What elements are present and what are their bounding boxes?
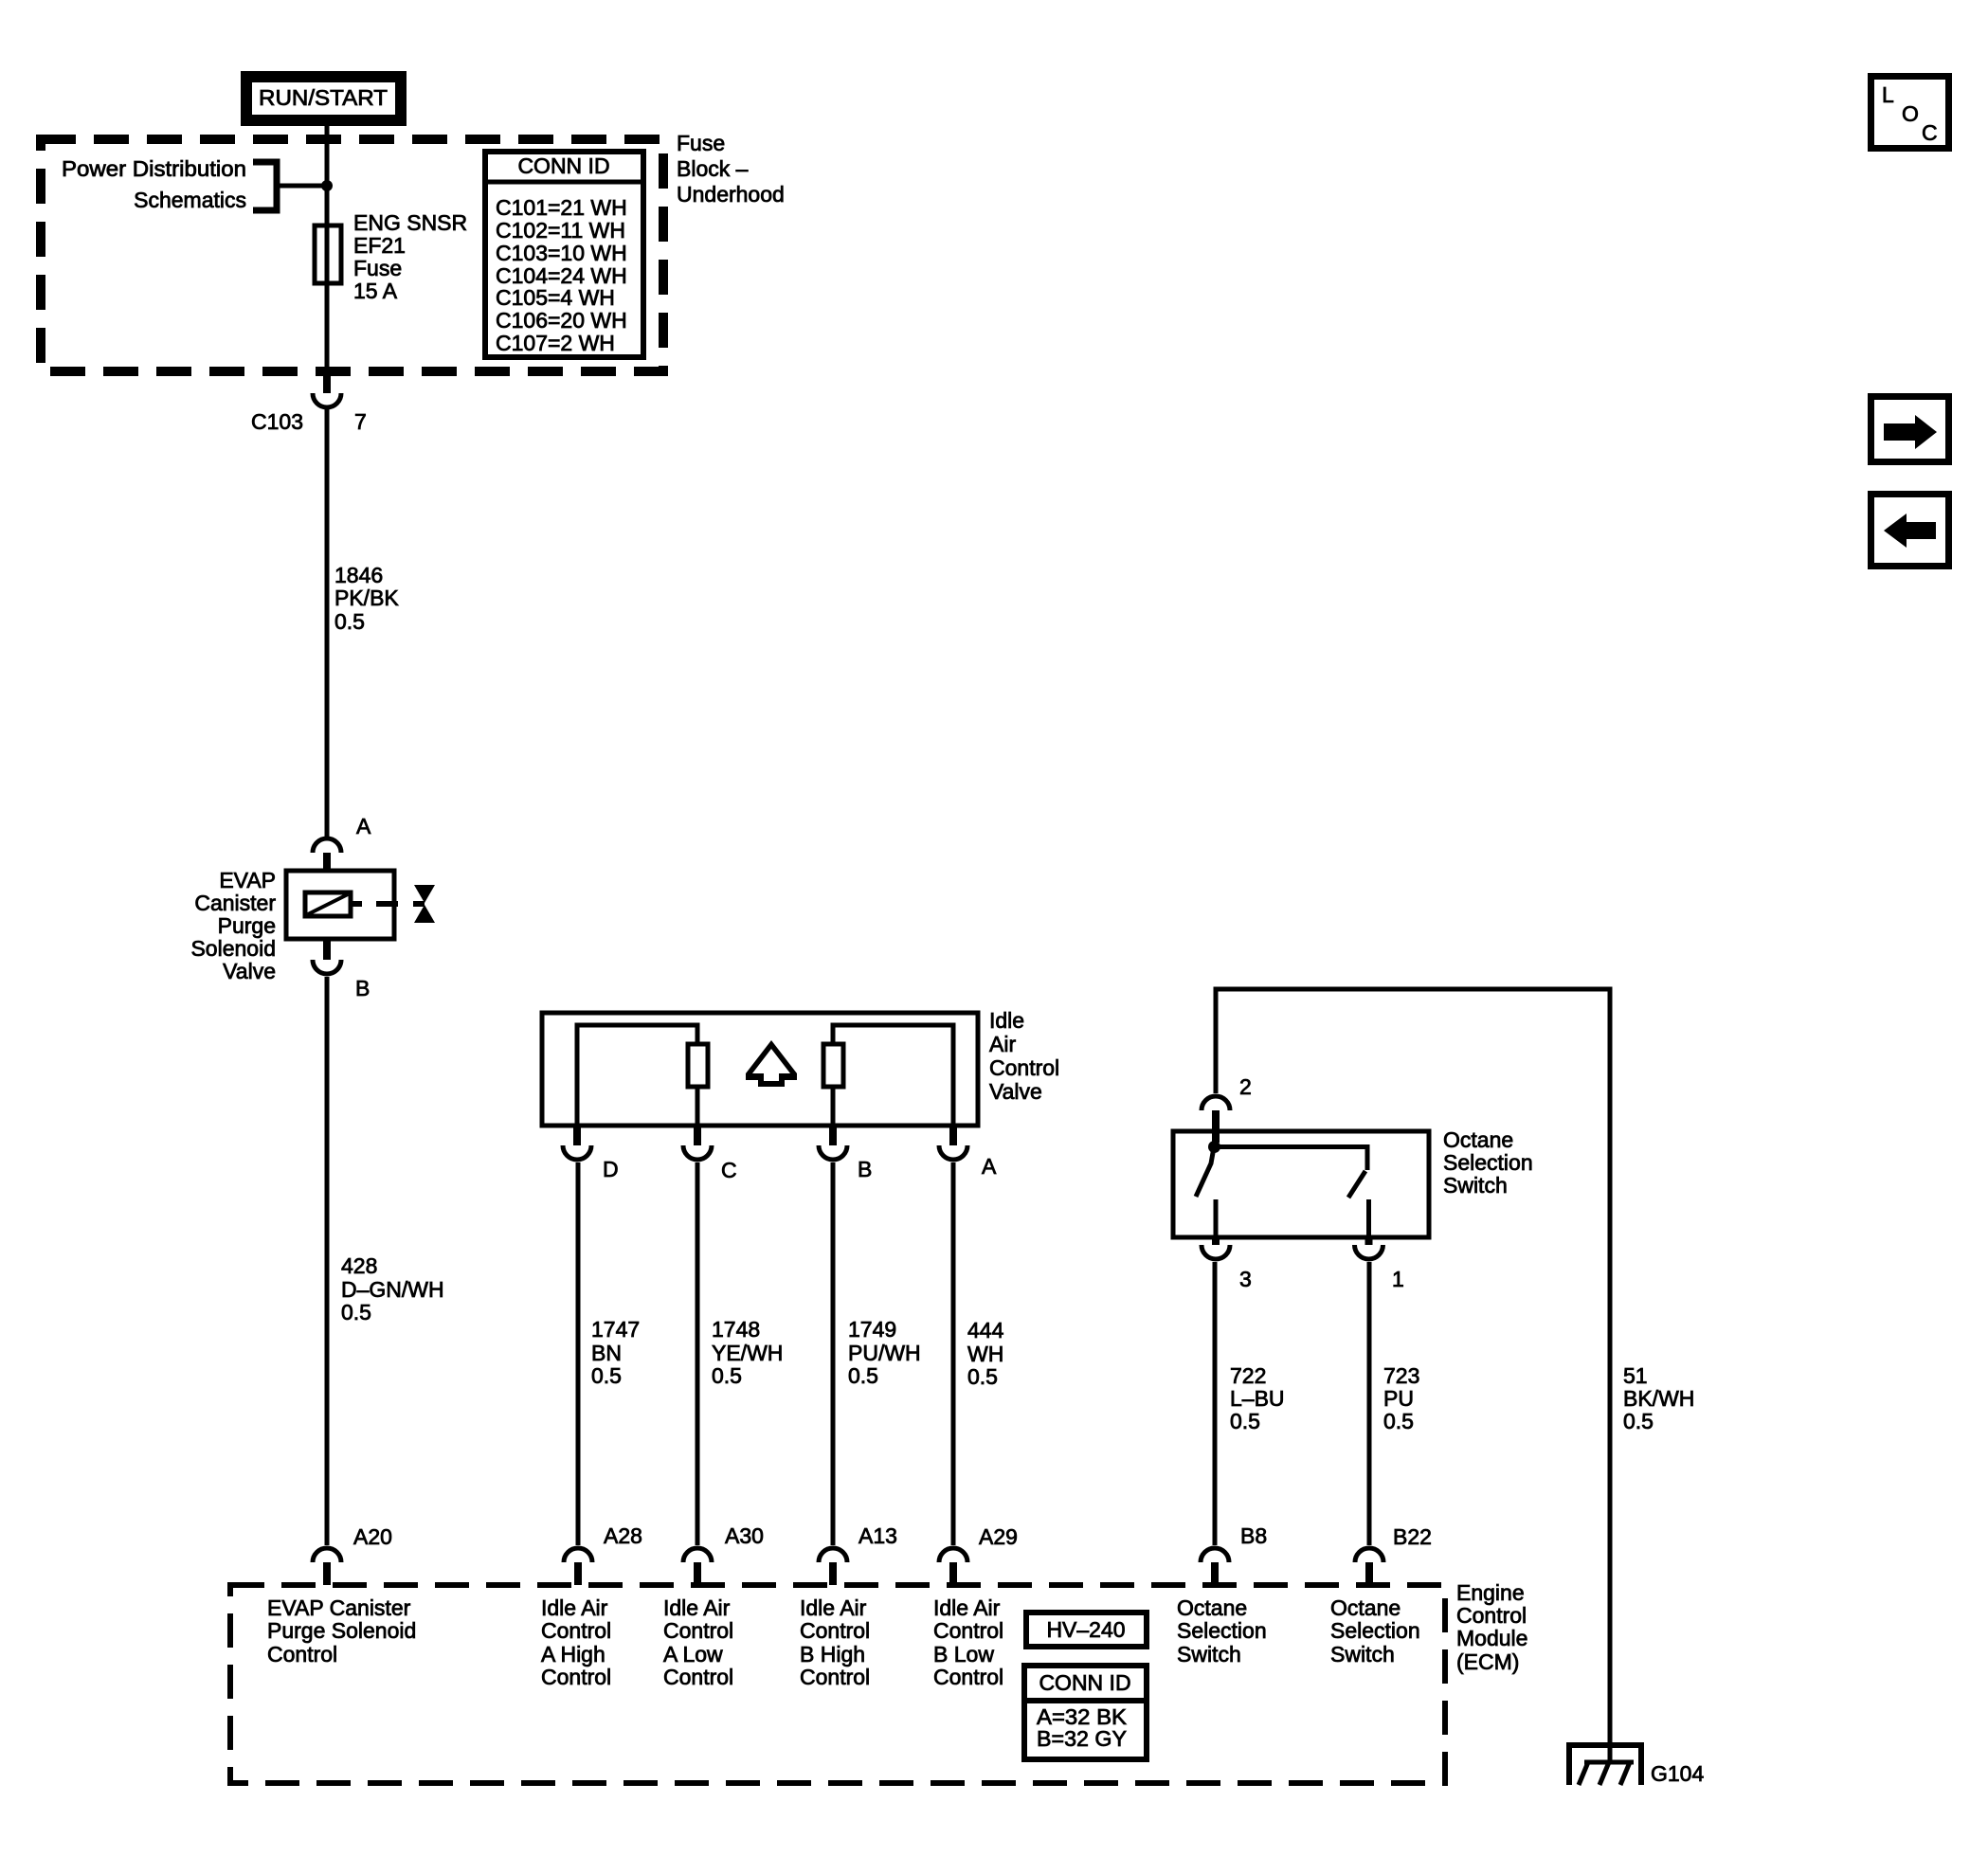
- IAC arrow symbol: [746, 1040, 797, 1087]
- svg-text:B High: B High: [800, 1642, 865, 1667]
- svg-text:Solenoid: Solenoid: [190, 936, 276, 961]
- EVAP canister purge solenoid valve box: [286, 871, 394, 939]
- svg-text:C103=10 WH: C103=10 WH: [496, 241, 627, 265]
- switch internals: [1196, 1141, 1369, 1237]
- fuse block underhood dashed box: [41, 139, 663, 371]
- svg-text:B8: B8: [1240, 1523, 1267, 1548]
- IAC connector pin C: [683, 1126, 737, 1182]
- svg-text:L–BU: L–BU: [1230, 1386, 1285, 1411]
- svg-text:Selection: Selection: [1443, 1150, 1533, 1175]
- ground G104: [1569, 1745, 1704, 1786]
- svg-text:A20: A20: [353, 1524, 392, 1549]
- svg-text:0.5: 0.5: [1383, 1409, 1414, 1433]
- svg-text:15 A: 15 A: [353, 279, 398, 303]
- svg-text:428: 428: [341, 1253, 377, 1278]
- svg-text:A28: A28: [604, 1523, 642, 1548]
- svg-text:B=32 GY: B=32 GY: [1037, 1726, 1127, 1751]
- svg-text:Underhood: Underhood: [677, 182, 785, 207]
- svg-text:444: 444: [967, 1318, 1004, 1342]
- label: Fuse Block - Underhood: [677, 131, 785, 207]
- svg-text:Control: Control: [989, 1055, 1059, 1080]
- ECM connector A28: [564, 1523, 642, 1585]
- svg-text:L: L: [1882, 82, 1894, 107]
- svg-text:Control: Control: [800, 1618, 870, 1643]
- svg-text:A High: A High: [541, 1642, 605, 1667]
- svg-text:A30: A30: [725, 1523, 764, 1548]
- ECM label: Octane Selection Switch (B22): [1330, 1595, 1420, 1667]
- connector B (EVAP valve): [313, 939, 370, 1000]
- svg-text:B: B: [355, 976, 370, 1000]
- svg-text:Idle Air: Idle Air: [800, 1595, 867, 1620]
- wire 1749 PU/WH 0.5: [833, 1162, 921, 1545]
- svg-text:Control: Control: [663, 1665, 733, 1689]
- svg-text:A: A: [356, 814, 371, 838]
- off-page bracket: [253, 162, 277, 210]
- svg-text:0.5: 0.5: [334, 609, 365, 634]
- svg-text:Octane: Octane: [1177, 1595, 1247, 1620]
- junction dot: [321, 180, 333, 191]
- svg-text:CONN ID: CONN ID: [517, 153, 609, 178]
- svg-text:1749: 1749: [848, 1317, 896, 1342]
- ECM label: Octane Selection Switch (B8): [1177, 1595, 1267, 1667]
- svg-text:A29: A29: [979, 1524, 1018, 1549]
- ECM CONN ID table: [1024, 1666, 1147, 1759]
- svg-text:Control: Control: [267, 1642, 337, 1667]
- svg-text:Engine: Engine: [1456, 1580, 1525, 1605]
- svg-text:BN: BN: [591, 1341, 622, 1365]
- dashed link to valve: [351, 901, 425, 907]
- svg-text:Control: Control: [933, 1618, 1003, 1643]
- svg-text:Control: Control: [933, 1665, 1003, 1689]
- ECM connector A13: [819, 1523, 897, 1585]
- svg-text:1: 1: [1392, 1267, 1404, 1291]
- svg-text:Idle Air: Idle Air: [541, 1595, 608, 1620]
- label: Idle Air Control Valve: [989, 1008, 1059, 1104]
- svg-text:C105=4 WH: C105=4 WH: [496, 285, 615, 310]
- ECM connector A29: [939, 1524, 1018, 1585]
- svg-text:0.5: 0.5: [591, 1363, 622, 1388]
- svg-text:Octane: Octane: [1330, 1595, 1401, 1620]
- HV-240 box: [1026, 1613, 1147, 1647]
- svg-text:Octane: Octane: [1443, 1127, 1513, 1152]
- ECM label: Idle Air Control B High Control: [800, 1595, 870, 1689]
- wire 1747 BN 0.5: [578, 1162, 640, 1545]
- svg-text:PK/BK: PK/BK: [334, 586, 399, 610]
- label: ENG SNSR EF21 Fuse 15 A: [353, 210, 467, 303]
- svg-text:WH: WH: [967, 1342, 1003, 1366]
- svg-text:Purge: Purge: [218, 913, 276, 938]
- svg-text:2: 2: [1239, 1074, 1252, 1099]
- svg-text:Switch: Switch: [1330, 1642, 1395, 1667]
- svg-text:0.5: 0.5: [341, 1300, 371, 1324]
- wire: RUN/START down through fuse block: [325, 126, 330, 376]
- svg-text:Canister: Canister: [194, 891, 276, 915]
- connector pin 3: [1202, 1237, 1252, 1291]
- svg-text:Power Distribution: Power Distribution: [62, 156, 246, 181]
- svg-text:C101=21 WH: C101=21 WH: [496, 195, 627, 220]
- svg-text:723: 723: [1383, 1363, 1419, 1388]
- connector pin 2 (octane switch): [1202, 1074, 1252, 1143]
- ECM connector B8: [1201, 1523, 1267, 1585]
- svg-text:C102=11 WH: C102=11 WH: [496, 218, 625, 243]
- IAC connector pin D: [563, 1126, 619, 1181]
- svg-text:Module: Module: [1456, 1626, 1527, 1650]
- svg-text:C106=20 WH: C106=20 WH: [496, 308, 627, 333]
- valve symbol: [414, 885, 435, 923]
- svg-text:CONN ID: CONN ID: [1039, 1670, 1130, 1695]
- svg-text:0.5: 0.5: [712, 1363, 742, 1388]
- wire 1846 PK/BK 0.5: [327, 409, 399, 837]
- LOC reference box: [1871, 77, 1949, 149]
- label: Octane Selection Switch (component): [1443, 1127, 1533, 1198]
- IAC connector pin A: [939, 1126, 997, 1179]
- svg-text:7: 7: [354, 409, 367, 434]
- octane selection switch box: [1173, 1131, 1429, 1237]
- svg-text:1748: 1748: [712, 1317, 760, 1342]
- svg-text:PU/WH: PU/WH: [848, 1341, 921, 1365]
- svg-text:B Low: B Low: [933, 1642, 994, 1667]
- svg-text:PU: PU: [1383, 1386, 1414, 1411]
- svg-text:Idle Air: Idle Air: [933, 1595, 1001, 1620]
- svg-text:Control: Control: [800, 1665, 870, 1689]
- ECM label: Idle Air Control A High Control: [541, 1595, 611, 1689]
- svg-text:Control: Control: [541, 1665, 611, 1689]
- svg-text:Valve: Valve: [989, 1079, 1042, 1104]
- connector C103 pin 7: [251, 376, 367, 434]
- svg-text:Purge Solenoid: Purge Solenoid: [267, 1618, 416, 1643]
- svg-text:C103: C103: [251, 409, 303, 434]
- svg-text:HV–240: HV–240: [1046, 1617, 1125, 1642]
- ECM label: EVAP Canister Purge Solenoid Control: [267, 1595, 416, 1667]
- svg-text:Block –: Block –: [677, 156, 749, 181]
- IAC connector pin B: [819, 1126, 872, 1181]
- svg-text:1846: 1846: [334, 563, 383, 587]
- svg-text:D–GN/WH: D–GN/WH: [341, 1277, 444, 1302]
- svg-text:B22: B22: [1393, 1524, 1432, 1549]
- left arrow box: [1871, 495, 1949, 567]
- wire 723 PU 0.5: [1369, 1262, 1419, 1545]
- svg-text:Fuse: Fuse: [353, 256, 402, 280]
- IAC coil A wiring: [577, 1025, 697, 1126]
- wire 1748 YE/WH 0.5: [697, 1162, 783, 1545]
- svg-text:B: B: [858, 1157, 872, 1181]
- label: Engine Control Module (ECM): [1456, 1580, 1527, 1674]
- label: Power Distribution Schematics: [62, 156, 246, 212]
- svg-text:EF21: EF21: [353, 233, 406, 258]
- wire: octane switch feed and 51 BK/WH to ground: [1216, 989, 1694, 1762]
- right arrow box: [1871, 397, 1949, 462]
- svg-text:A: A: [982, 1154, 997, 1179]
- connector pin 1: [1355, 1237, 1404, 1291]
- RUN/START power feed box: [246, 77, 401, 120]
- resistor (coil B): [823, 1044, 843, 1087]
- ECM connector B22: [1355, 1524, 1432, 1585]
- svg-text:ENG SNSR: ENG SNSR: [353, 210, 467, 235]
- svg-text:0.5: 0.5: [1230, 1409, 1260, 1433]
- svg-text:Idle Air: Idle Air: [663, 1595, 731, 1620]
- svg-text:Switch: Switch: [1177, 1642, 1241, 1667]
- svg-text:Control: Control: [663, 1618, 733, 1643]
- IAC coil B wiring: [833, 1025, 953, 1126]
- solenoid coil: [305, 892, 351, 916]
- svg-text:Fuse: Fuse: [677, 131, 725, 155]
- svg-text:C107=2 WH: C107=2 WH: [496, 331, 615, 355]
- svg-text:0.5: 0.5: [1623, 1409, 1654, 1433]
- svg-text:Selection: Selection: [1177, 1618, 1267, 1643]
- svg-text:Idle: Idle: [989, 1008, 1024, 1033]
- ECM connector A20: [313, 1524, 392, 1585]
- svg-text:0.5: 0.5: [967, 1364, 998, 1389]
- engine control module dashed box: [230, 1585, 1445, 1783]
- svg-text:1747: 1747: [591, 1317, 640, 1342]
- ECM connector A30: [683, 1523, 764, 1585]
- svg-text:51: 51: [1623, 1363, 1648, 1388]
- CONN ID table (fuse block): [485, 152, 643, 357]
- svg-text:YE/WH: YE/WH: [712, 1341, 783, 1365]
- svg-text:Switch: Switch: [1443, 1173, 1508, 1198]
- label: EVAP Canister Purge Solenoid Valve: [190, 868, 276, 983]
- wire 722 L-BU 0.5: [1215, 1262, 1285, 1545]
- wire 428 D-GN/WH 0.5: [327, 977, 444, 1545]
- svg-text:C: C: [721, 1158, 737, 1182]
- resistor (coil A): [688, 1044, 708, 1126]
- svg-text:3: 3: [1239, 1267, 1252, 1291]
- connector A (EVAP valve): [313, 814, 371, 871]
- svg-text:G104: G104: [1651, 1761, 1704, 1786]
- idle air control valve box: [542, 1013, 978, 1126]
- ECM label: Idle Air Control A Low Control: [663, 1595, 733, 1689]
- wire: bracket to main wire: [277, 184, 327, 189]
- svg-text:Control: Control: [1456, 1603, 1527, 1628]
- svg-text:RUN/START: RUN/START: [259, 85, 388, 110]
- svg-text:Selection: Selection: [1330, 1618, 1420, 1643]
- svg-text:722: 722: [1230, 1363, 1266, 1388]
- svg-text:C: C: [1922, 120, 1938, 145]
- svg-text:D: D: [603, 1157, 619, 1181]
- wire 444 WH 0.5: [953, 1162, 1004, 1545]
- svg-text:BK/WH: BK/WH: [1623, 1386, 1694, 1411]
- svg-text:Control: Control: [541, 1618, 611, 1643]
- svg-text:EVAP Canister: EVAP Canister: [267, 1595, 411, 1620]
- fuse ENG SNSR EF21 15A: [315, 225, 341, 283]
- svg-text:0.5: 0.5: [848, 1363, 878, 1388]
- svg-text:Schematics: Schematics: [134, 188, 246, 212]
- svg-text:EVAP: EVAP: [219, 868, 276, 892]
- svg-text:O: O: [1902, 101, 1919, 126]
- ECM label: Idle Air Control B Low Control: [933, 1595, 1003, 1689]
- svg-text:A Low: A Low: [663, 1642, 723, 1667]
- svg-text:(ECM): (ECM): [1456, 1649, 1519, 1674]
- svg-text:Valve: Valve: [223, 959, 276, 983]
- svg-text:A13: A13: [858, 1523, 897, 1548]
- svg-text:Air: Air: [989, 1032, 1016, 1056]
